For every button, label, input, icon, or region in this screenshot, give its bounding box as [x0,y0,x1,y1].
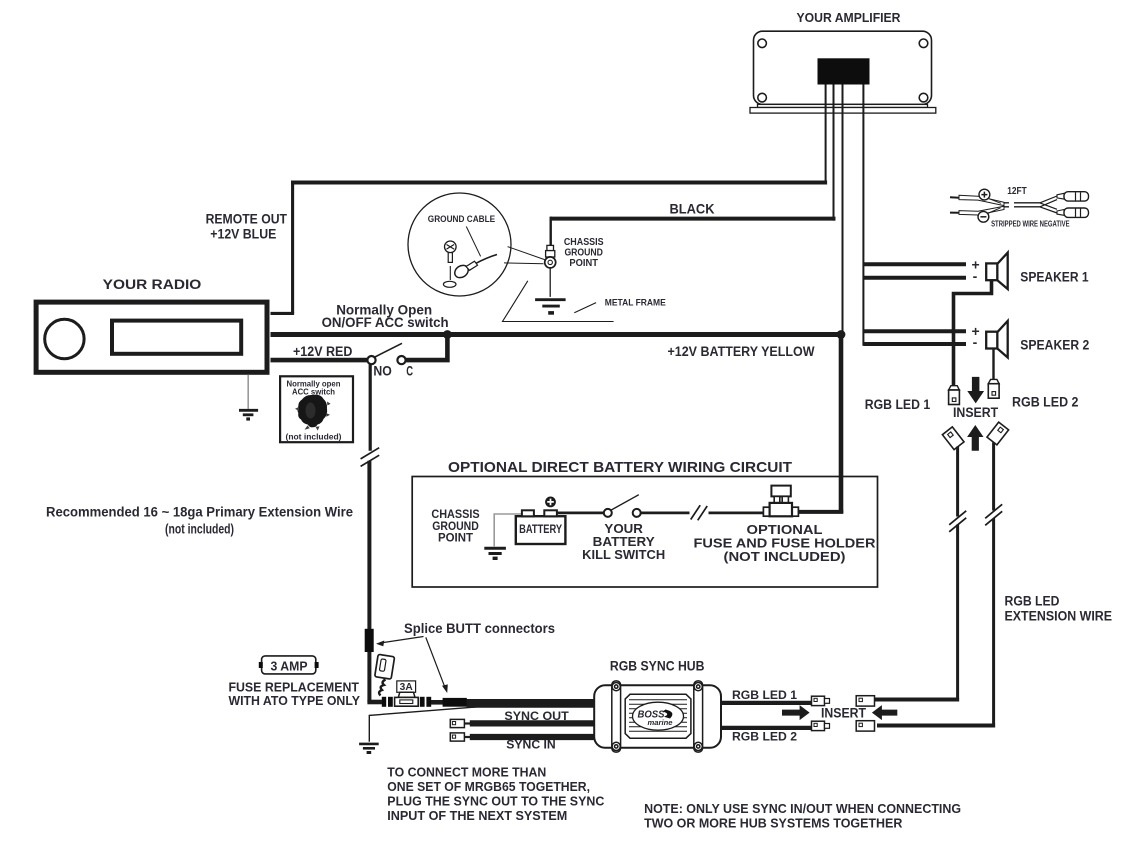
hub strap right [694,681,703,752]
label Recommended extension wire [46,504,353,536]
svg-text:C: C [406,363,413,378]
label YOUR BATTERY KILL SWITCH [582,521,665,562]
wire break to fuse [709,512,764,515]
wire amp speaker lead [862,85,864,346]
wire battery to kill switch [557,512,604,515]
wire extension right vertical [985,443,1002,728]
label FUSE REPLACEMENT WITH ATO TYPE ONLY [228,681,360,709]
splice pointer arrow 1 [376,637,424,647]
svg-text:OPTIONAL DIRECT BATTERY WIRING: OPTIONAL DIRECT BATTERY WIRING CIRCUIT [448,459,792,476]
label YOUR AMPLIFIER [797,11,901,25]
insert arrow left [872,705,897,720]
splice pointer arrow 2 [426,637,448,693]
svg-text:(NOT INCLUDED): (NOT INCLUDED) [724,549,846,564]
label SPEAKER 1 [1020,270,1089,285]
label Normally Open ON/OFF ACC switch [322,301,449,330]
svg-text:TWO OR MORE HUB SYSTEMS TOGETH: TWO OR MORE HUB SYSTEMS TOGETHER [644,816,903,831]
battery circuit box [412,477,877,588]
wire break battery circuit [691,505,708,520]
svg-text:KILL SWITCH: KILL SWITCH [582,547,665,562]
junction dot A [443,330,452,339]
svg-text:Splice BUTT connectors: Splice BUTT connectors [404,621,555,636]
battery ground gray wire [494,514,521,546]
fuse cover lid [375,654,395,679]
svg-text:NO: NO [373,363,391,378]
svg-text:TO CONNECT MORE THAN: TO CONNECT MORE THAN [387,765,546,780]
svg-text:BLACK: BLACK [670,202,715,217]
wire break on NO down run [361,448,380,467]
svg-text:BOSS: BOSS [638,710,665,721]
svg-text:INSERT: INSERT [953,405,999,420]
ACC switch photo box [280,376,353,442]
battery body [516,516,566,544]
svg-text:YOUR RADIO: YOUR RADIO [103,277,202,292]
radio ground wire [247,375,249,409]
svg-text:EXTENSION WIRE: EXTENSION WIRE [1005,609,1113,624]
speaker 1 symbol [986,253,1008,289]
label 12FT [1007,185,1027,197]
label CHASSIS GROUND POINT [564,237,604,269]
svg-text:PLUG THE SYNC OUT TO THE SYNC: PLUG THE SYNC OUT TO THE SYNC [387,794,605,809]
female connector LED2 [856,721,874,731]
wire +12V RED [271,358,368,363]
label 3A [397,681,416,693]
optional fuse holder [763,486,798,517]
amplifier terminal block [818,58,870,84]
label SYNC IN [506,738,555,752]
label STRIPPED WIRE NEGATIVE [991,219,1070,228]
12FT speaker wire illustration [950,195,1057,215]
12FT minus circle [978,208,1001,222]
3 AMP label box [259,656,319,674]
ground cable pointer [466,227,480,257]
svg-text:INPUT OF THE NEXT SYSTEM: INPUT OF THE NEXT SYSTEM [387,808,567,823]
label +12V BATTERY YELLOW [668,344,815,359]
label Splice BUTT connectors [404,621,555,636]
wire extension right horizontal [877,724,995,728]
radio body [36,302,267,372]
ACC switch photo labels [286,378,342,441]
fuse cover cord [379,680,385,696]
label OPTIONAL FUSE AND FUSE HOLDER [694,522,876,564]
svg-text:+12V BATTERY YELLOW: +12V BATTERY YELLOW [668,344,815,359]
label OPTIONAL DIRECT BATTERY WIRING CIRCUIT [448,459,792,476]
svg-text:-: - [973,268,978,284]
wire sync in [470,734,595,740]
svg-text:RGB LED 1: RGB LED 1 [732,688,797,702]
amplifier base plate [750,104,936,113]
label BLACK [670,202,715,217]
inline fuse holder 3A [395,692,419,706]
svg-text:POINT: POINT [438,531,473,544]
labels NO and C [373,363,413,378]
svg-text:+12V RED: +12V RED [293,344,353,359]
sync out connector [450,719,470,727]
svg-text:SYNC OUT: SYNC OUT [504,709,569,723]
svg-text:Recommended 16 ~ 18ga Primary: Recommended 16 ~ 18ga Primary Extension … [46,504,353,519]
junction dot B [837,330,846,339]
wire remote out run [271,181,828,314]
svg-text:GROUND CABLE: GROUND CABLE [428,214,496,225]
label RGB LED 2 hub [732,730,797,744]
fuse holder end boots [382,697,431,707]
RGB LED1 connector [949,386,960,405]
svg-text:RGB SYNC HUB: RGB SYNC HUB [610,658,705,673]
label SPEAKER 2 [1020,338,1089,353]
label RGB LED 1 left [865,397,931,412]
12FT plus circle [979,189,1001,203]
insert arrow down [967,377,984,404]
magnifier circle [408,193,511,296]
wire speaker2 to RGB LED2 [992,349,994,380]
amplifier body [754,31,932,104]
splice butt connector 1 [365,629,374,652]
metal frame outline [503,281,614,322]
svg-text:NOTE: ONLY USE SYNC IN/OUT WHE: NOTE: ONLY USE SYNC IN/OUT WHEN CONNECTI… [644,801,961,816]
speaker 2 symbol [986,321,1008,358]
svg-text:RGB LED 2: RGB LED 2 [1012,394,1079,409]
svg-text:ON/OFF ACC switch: ON/OFF ACC switch [322,314,449,330]
svg-text:STRIPPED WIRE NEGATIVE: STRIPPED WIRE NEGATIVE [991,219,1070,228]
wire accessory main line [271,332,842,337]
wire hub RGB LED2 [721,726,812,730]
label +12V RED [293,344,353,359]
radio ground symbol [239,410,258,419]
insert arrow right [782,705,810,720]
speaker2 polarity labels [972,323,980,350]
label SYNC OUT [504,709,569,723]
wire through fuse [367,700,443,705]
svg-text:RGB LED: RGB LED [1005,594,1060,609]
label INSERT bottom [821,705,867,720]
insert arrow up [967,425,983,451]
svg-text:RGB LED 2: RGB LED 2 [732,730,797,744]
ACC switch contacts NO C [367,356,405,364]
radio knob [45,319,84,358]
battery plus symbol [545,497,556,508]
battery ground symbol [484,548,506,558]
svg-text:3 AMP: 3 AMP [271,659,308,673]
ground cable screw [443,241,456,287]
sync in connector [450,733,470,741]
wire hub RGB LED1 [721,701,812,705]
label BATTERY [519,523,562,536]
12FT spade connectors [1057,192,1089,218]
svg-text:RGB LED 1: RGB LED 1 [865,397,931,412]
label METAL FRAME [605,298,667,309]
wire amp black lead [833,85,835,221]
speaker1 polarity labels [972,256,980,284]
wire speaker2 plus [863,329,966,333]
svg-text:12FT: 12FT [1007,185,1027,197]
svg-text:+12V BLUE: +12V BLUE [210,226,276,241]
splice butt connector 2 [443,698,467,707]
svg-text:-: - [973,334,978,350]
main power bundle to hub [467,699,596,708]
svg-text:ONE SET OF MRGB65 TOGETHER,: ONE SET OF MRGB65 TOGETHER, [387,779,590,794]
kill switch lever [611,495,639,511]
hub logo oval [633,702,684,730]
svg-text:SPEAKER 2: SPEAKER 2 [1020,338,1089,353]
label RGB SYNC HUB [610,658,705,673]
hub strap left [612,681,621,752]
svg-text:INSERT: INSERT [821,705,867,720]
label REMOTE OUT +12V BLUE [206,212,288,242]
svg-text:FUSE REPLACEMENT: FUSE REPLACEMENT [228,681,359,695]
magnifier wedge lines [504,247,545,264]
extension connector tilted right [987,422,1009,445]
male connector LED2 [812,721,830,730]
ACC switch photo [295,395,331,431]
wire speaker1 minus [863,276,966,280]
svg-text:(not included): (not included) [165,522,234,537]
svg-text:REMOTE OUT: REMOTE OUT [206,212,288,227]
svg-text:CHASSIS: CHASSIS [564,237,604,248]
male connector LED1 [812,696,830,705]
wire BLACK run [551,217,836,246]
ACC switch lever [375,343,402,357]
label RGB LED EXTENSION WIRE [1005,594,1113,624]
battery terminals [522,510,557,516]
svg-text:WITH ATO TYPE ONLY: WITH ATO TYPE ONLY [228,694,360,708]
wire speaker1 plus [863,262,966,266]
wire battery yellow drop [799,335,844,514]
kill switch contacts [604,509,641,517]
svg-text:BATTERY: BATTERY [519,523,562,536]
metal frame pointer [574,303,596,313]
radio display [112,321,241,354]
svg-text:YOUR AMPLIFIER: YOUR AMPLIFIER [797,11,901,25]
female connector LED1 [856,696,874,706]
amplifier corner screws [758,39,928,102]
wire extension left vertical [949,447,966,702]
svg-text:GROUND: GROUND [564,247,603,258]
label CHASSIS GROUND POINT battery [431,508,480,544]
svg-text:marine: marine [648,720,673,727]
wire speaker1 to RGB LED1 [954,280,992,386]
label RGB LED 1 hub [732,688,797,702]
wire chassis ground drop [549,268,551,297]
ground cable ring terminal [452,255,497,281]
ground branch wire [369,707,476,742]
svg-text:SYNC IN: SYNC IN [506,738,555,752]
label TO CONNECT block [387,765,605,824]
label RGB LED 2 right [1012,394,1079,409]
label GROUND CABLE [428,214,496,225]
wire switch C to junction [406,335,448,361]
wire amp remote lead [825,85,827,183]
svg-text:(not included): (not included) [286,432,342,442]
extension connector tilted left [942,427,964,450]
hub body [594,685,721,748]
wire speaker2 minus [863,342,966,346]
hub faceplate [625,694,691,738]
ground symbol hub feed [359,744,379,753]
wire sync out [470,720,595,726]
wire extension left horizontal [875,698,960,702]
chassis ground terminal [545,245,556,268]
wire amp yellow lead [842,85,844,335]
wire switch NO down run [368,364,372,702]
label NOTE block [644,801,961,831]
ground symbol metal frame [535,300,566,313]
RGB LED2 connector [988,379,999,398]
svg-text:SPEAKER 1: SPEAKER 1 [1020,270,1089,285]
label INSERT top [953,405,999,420]
svg-text:POINT: POINT [569,258,598,269]
label YOUR RADIO [103,277,202,292]
wire kill switch to break [641,512,690,515]
svg-text:METAL FRAME: METAL FRAME [605,298,667,309]
